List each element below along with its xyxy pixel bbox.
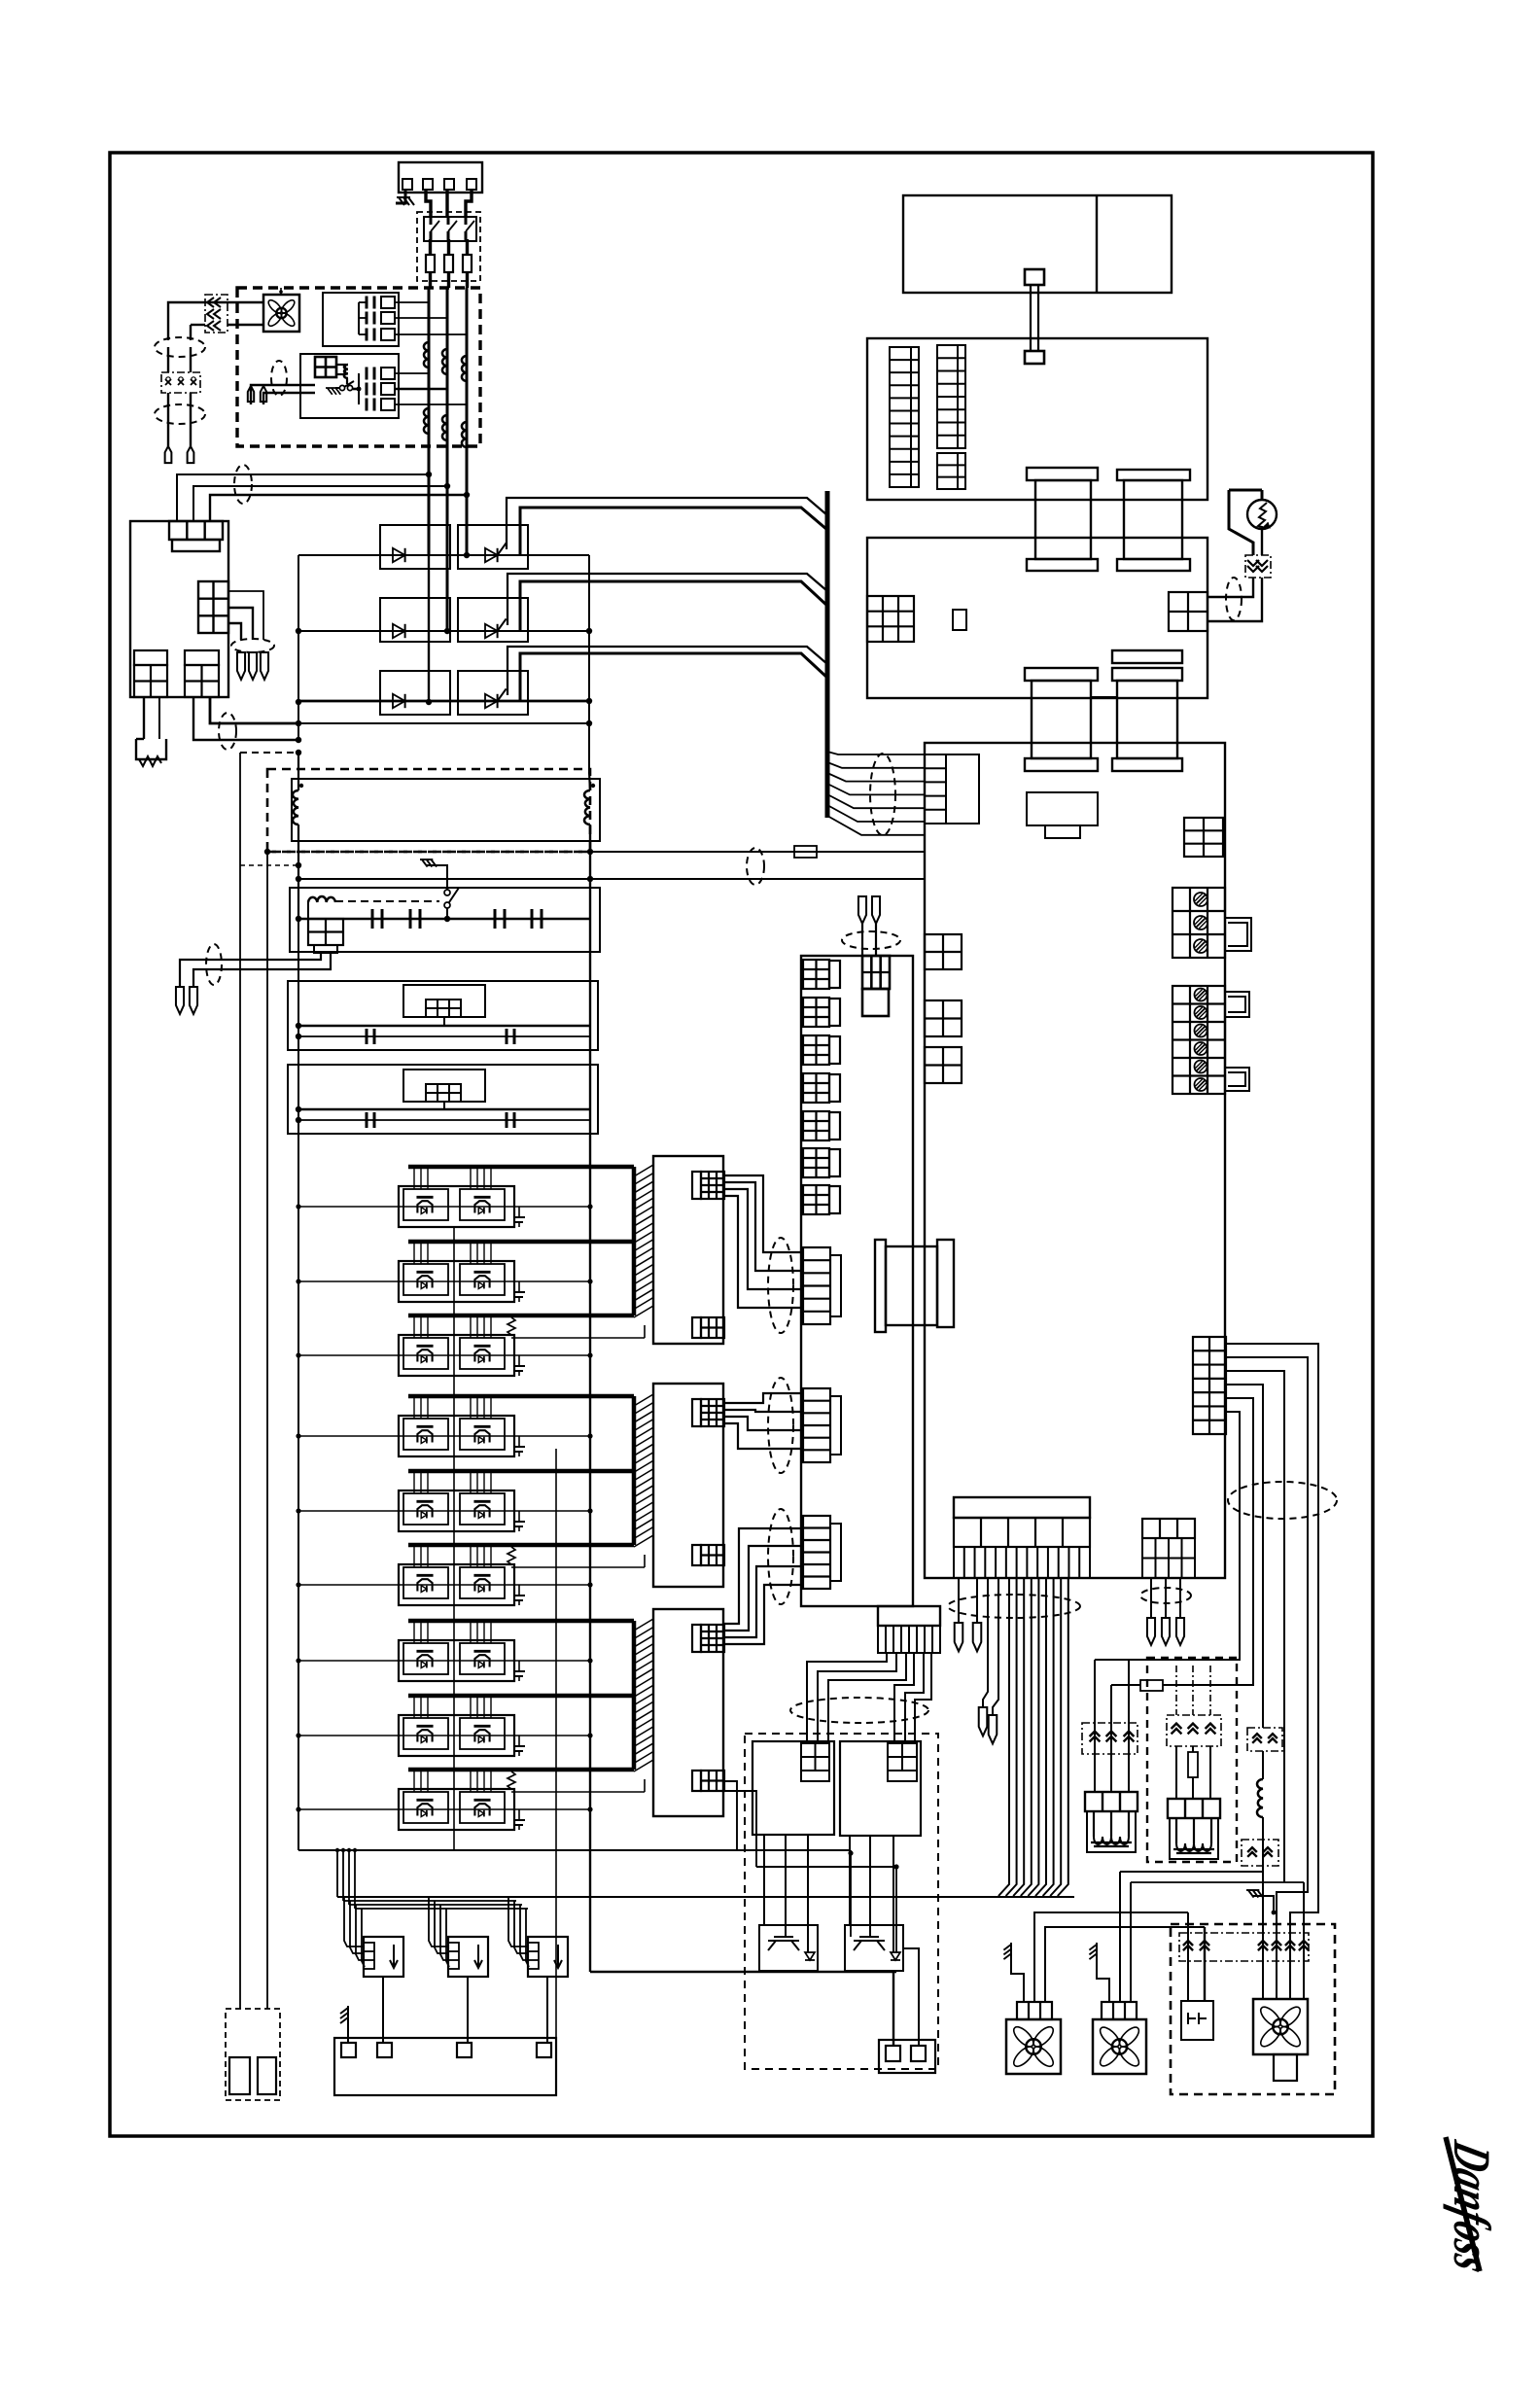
- SCR module T3: [458, 671, 528, 715]
- RFI coil: [308, 896, 335, 902]
- inverter bus bar: [408, 1240, 634, 1245]
- relay footprint box: [1027, 792, 1098, 825]
- connector ground: [347, 2019, 349, 2043]
- choke coil right: [584, 790, 590, 824]
- thermistor wire + ferrite: [1261, 529, 1263, 555]
- PE wire long vertical: [239, 753, 241, 2009]
- SMPS box: [130, 521, 228, 697]
- current sensor 2: [448, 1937, 488, 1977]
- control card box: [867, 338, 1207, 500]
- ferrite above trafo A: [1082, 1723, 1137, 1754]
- left edge connector stack: [803, 960, 829, 989]
- trafo B: [1168, 1799, 1220, 1818]
- brake aux rails: [298, 1849, 851, 1851]
- ellipse on SMPS wires: [234, 465, 252, 504]
- power card bottom ladder connector: [1193, 1337, 1226, 1434]
- current sensor 3: [528, 1937, 568, 1977]
- bottom signal connector: [334, 2038, 556, 2095]
- bottom pin strip of gate card: [878, 1606, 940, 1626]
- brake dashed box: [745, 1734, 938, 2069]
- trafo A feed wires: [1094, 1660, 1096, 1792]
- fan2 ground: [1089, 1943, 1097, 1959]
- brake igbt 2: [845, 1925, 903, 1971]
- top connector on card: [862, 956, 890, 989]
- big shield ellipse right: [1228, 1482, 1337, 1519]
- phase feed line: [337, 1896, 1074, 1898]
- brake igbt 1: [759, 1925, 818, 1971]
- gate driver card 3: [653, 1609, 723, 1816]
- phase wire: [298, 1206, 590, 1208]
- gate resistor: [507, 1771, 515, 1789]
- wires terminal to fuses: [426, 190, 431, 217]
- RFI cap block 1 (top): [323, 293, 399, 346]
- diode module D3: [380, 671, 450, 715]
- ribbon header strip 1: [890, 347, 919, 487]
- brake module 2: [840, 1741, 921, 1836]
- SMPS ground via RC: [143, 697, 145, 739]
- snubber cap: [518, 1281, 520, 1292]
- IGBT module pair: [399, 1715, 514, 1756]
- snubber cap: [518, 1809, 520, 1820]
- ferrite in box B: [1167, 1715, 1221, 1746]
- shield ellipse brake: [790, 1698, 928, 1723]
- main heatsink fan: [1253, 1999, 1308, 2054]
- page frame: [110, 153, 1373, 2136]
- phase wire: [298, 1280, 590, 1282]
- LCP cable stem: [1025, 269, 1044, 285]
- fan1 wires: [1034, 1912, 1188, 2002]
- fan2 wires: [1119, 1872, 1121, 2002]
- DC+ bus from SCRs: [507, 498, 827, 549]
- ribbon header strip 3: [937, 453, 965, 489]
- small coil in filter: [344, 365, 348, 378]
- sensor output: [467, 1977, 469, 2043]
- IGBT module pair: [399, 1491, 514, 1531]
- capacitor bank C1: [1027, 468, 1098, 480]
- sensor feed loops: [344, 1897, 365, 1947]
- cooling fan 2: [1093, 2019, 1146, 2074]
- main disconnect + fuses F1 (dashed): [417, 212, 480, 281]
- line choke coil right: [1262, 1751, 1264, 1779]
- phase wire: [298, 1660, 590, 1662]
- phase wire: [298, 1808, 590, 1810]
- inverter bus bar: [408, 1619, 634, 1624]
- IGBT module pair: [399, 1186, 514, 1227]
- gate ribbon hatch: [634, 1619, 653, 1631]
- RFI cap rail: [296, 916, 301, 922]
- SMPS DC feed wires: [193, 697, 298, 740]
- DC- bus to choke: [588, 555, 590, 772]
- filter input pins and wires: [248, 386, 254, 402]
- gate ribbon hatch: [634, 1394, 653, 1406]
- big pin strip under power card: [954, 1497, 1090, 1518]
- Danfoss logo: [1443, 2135, 1501, 2279]
- gate drive interface card: [801, 956, 913, 1606]
- inverter bus bar: [408, 1469, 634, 1474]
- ribbon driver1 to gate card: [724, 1175, 803, 1252]
- right grid on heatsink box: [1169, 592, 1207, 631]
- snubber cap: [518, 1436, 520, 1447]
- inner filter box: [300, 354, 399, 418]
- aux fan rail y1936: [1131, 1881, 1304, 1883]
- phase wire: [298, 1584, 590, 1586]
- left grid on heatsink box: [867, 596, 914, 642]
- dashed mid rail: [267, 851, 590, 854]
- snubber cap: [518, 1736, 520, 1746]
- choke coil left: [293, 790, 298, 824]
- RFI filter box: [290, 888, 600, 952]
- DC bus vertical: [825, 491, 830, 818]
- phase wire: [298, 1735, 590, 1736]
- fan transformer A: [1085, 1792, 1137, 1811]
- balance circuit box 1: [288, 981, 598, 1050]
- ellipse on DC feed: [219, 713, 236, 750]
- screw terminal block 1: [1172, 888, 1225, 958]
- inverter bus bar: [408, 1543, 634, 1548]
- phase wire: [298, 1354, 590, 1356]
- inverter DC bracket: [632, 1167, 637, 1315]
- phase wire: [298, 1510, 590, 1512]
- brake output connector: [879, 2040, 935, 2073]
- ferrite row in fan box: [1179, 1933, 1309, 1961]
- gate resistor: [507, 1547, 515, 1564]
- RFI switch to ground in filter: [326, 388, 340, 395]
- ellipse on filter pin wires: [271, 361, 287, 396]
- small ferrite right lower: [1242, 1840, 1278, 1866]
- ferrite dash-dot box input cable: [161, 372, 200, 393]
- bus ribbon from DC bus to power card: [827, 752, 925, 754]
- RFI ground switch: [420, 859, 437, 867]
- PE termination dashed box: [226, 2009, 280, 2100]
- cooling fan 1: [1006, 2019, 1061, 2074]
- cap C4: [1112, 650, 1182, 663]
- LCP panel box: [903, 195, 1172, 293]
- IGBT module pair: [399, 1640, 514, 1681]
- shield ellipse thermistor: [1226, 578, 1242, 620]
- rectifier row wires: [298, 554, 589, 556]
- thermistor on heatsink: [1229, 489, 1262, 492]
- fan dashed box B: [1147, 1658, 1237, 1862]
- pins above card: [858, 896, 866, 924]
- phase wire: [298, 1435, 590, 1437]
- dash-dot feeds in box B: [1175, 1666, 1177, 1715]
- power card left connectors: [925, 754, 946, 824]
- inverter bus bar: [408, 1394, 634, 1399]
- SMPS aux output wires and pins: [228, 591, 263, 640]
- power card 2x3 grid: [1184, 818, 1223, 857]
- gate driver card 2: [653, 1384, 723, 1587]
- diode module D2: [380, 598, 450, 642]
- phase wires with line chokes: [428, 288, 431, 446]
- phase wires to sensors: [336, 1850, 338, 1897]
- DC low rail to power card: [296, 876, 301, 882]
- wires SMPS to DC bus taps: [177, 474, 429, 521]
- IGBT module pair: [399, 1416, 514, 1456]
- fan capacitor box: [1181, 2001, 1213, 2040]
- inverter DC bracket: [632, 1621, 637, 1770]
- fan cap wires: [1187, 1912, 1189, 2001]
- wires gate card to brake modules: [807, 1653, 887, 1743]
- DC mid rail to power card: [590, 851, 925, 853]
- SMPS top connector: [169, 521, 223, 540]
- fuse elements: [426, 255, 435, 272]
- cap bank lower pair C3: [1025, 668, 1098, 681]
- gate resistor: [507, 1317, 515, 1335]
- jumper on block1: [1225, 918, 1251, 951]
- fan1 ground: [1003, 1943, 1011, 1959]
- RFI dashed link to switch: [335, 900, 439, 902]
- IGBT module pair: [399, 1335, 514, 1376]
- DC- rail left: [297, 555, 299, 741]
- IGBT module pair: [399, 1261, 514, 1302]
- RFI connector: [308, 919, 343, 945]
- mains input pins: [167, 414, 169, 446]
- choke inner box: [292, 779, 600, 841]
- phase wires below EMC box: [428, 446, 431, 556]
- snubber cap: [518, 1661, 520, 1671]
- small ferrite right: [1247, 1728, 1282, 1751]
- diode module D1: [380, 525, 450, 569]
- sensor feed loops: [429, 1897, 449, 1947]
- brake module 1: [752, 1741, 834, 1835]
- current sensor 1: [364, 1937, 403, 1977]
- SCR module T1: [458, 525, 528, 569]
- power card outline: [925, 743, 1225, 1578]
- shield ellipse: [155, 337, 205, 357]
- snubber cap: [518, 1585, 520, 1596]
- balance circuit box 2: [288, 1065, 598, 1134]
- ribbon header strip 2: [937, 345, 965, 448]
- SCR module T2: [458, 598, 528, 642]
- wires from ladder to fans: [1226, 1344, 1318, 1999]
- connector in filter: [315, 357, 336, 377]
- small connector under power card: [1142, 1519, 1195, 1538]
- snubber cap: [518, 1207, 520, 1217]
- inverter bus bar: [408, 1314, 634, 1318]
- RFI control wires to pins: [180, 953, 321, 987]
- ribbon driver2 to gate card: [724, 1393, 803, 1403]
- IGBT module pair: [399, 1789, 514, 1830]
- dashed stub: [240, 864, 298, 866]
- ground stub right: [1246, 1890, 1263, 1898]
- ground at terminal: [396, 190, 405, 203]
- gate ribbon hatch: [634, 1165, 653, 1176]
- gate rail verticals: [453, 1227, 455, 1850]
- gate driver card 1: [653, 1156, 723, 1344]
- dashed link top: [240, 752, 298, 754]
- ferrite dash-dot box at fan input: [205, 295, 227, 333]
- jumpers on block2: [1225, 992, 1249, 1017]
- ribbon driver3 to gate card: [724, 1528, 803, 1624]
- driver3 wires to brake: [724, 1781, 737, 1850]
- inverter bus bar: [408, 1694, 634, 1699]
- inverter bus bar: [408, 1768, 634, 1772]
- screw terminal block 2: [1172, 986, 1225, 1094]
- snubber cap: [518, 1511, 520, 1522]
- mains terminal block X1: [399, 162, 482, 193]
- inverter DC bracket: [632, 1396, 637, 1545]
- IGBT module pair: [399, 1564, 514, 1605]
- brake module to igbt wires: [763, 1835, 765, 1925]
- main fan dashed box: [1171, 1924, 1335, 2094]
- EMC filter enclosure (dashed): [237, 288, 480, 446]
- DC choke dashed box: [267, 769, 590, 852]
- inverter bus bar: [408, 1165, 634, 1170]
- internal fan: [263, 295, 299, 332]
- wire bundle from pin strip: [948, 1595, 1080, 1618]
- heatsink interface box: [867, 538, 1207, 698]
- resistor in fan feed: [1140, 1680, 1163, 1691]
- sensor output: [546, 1977, 548, 2043]
- capacitor bank C2: [1117, 470, 1190, 480]
- SMPS bottom connector grids: [134, 665, 167, 697]
- DC link connector: [886, 1246, 937, 1325]
- SMPS side connector: [198, 581, 228, 633]
- sensor feed loops: [508, 1897, 529, 1947]
- wires into EMC filter: [168, 302, 263, 340]
- shield ellipse 2: [155, 404, 205, 424]
- resistor in box B: [1188, 1752, 1198, 1777]
- snubber cap: [518, 1355, 520, 1366]
- cap block 2: [358, 373, 360, 404]
- fan-in connectors: [803, 1247, 830, 1324]
- PE vertical 2: [266, 852, 268, 2009]
- sensor output: [382, 1977, 384, 2043]
